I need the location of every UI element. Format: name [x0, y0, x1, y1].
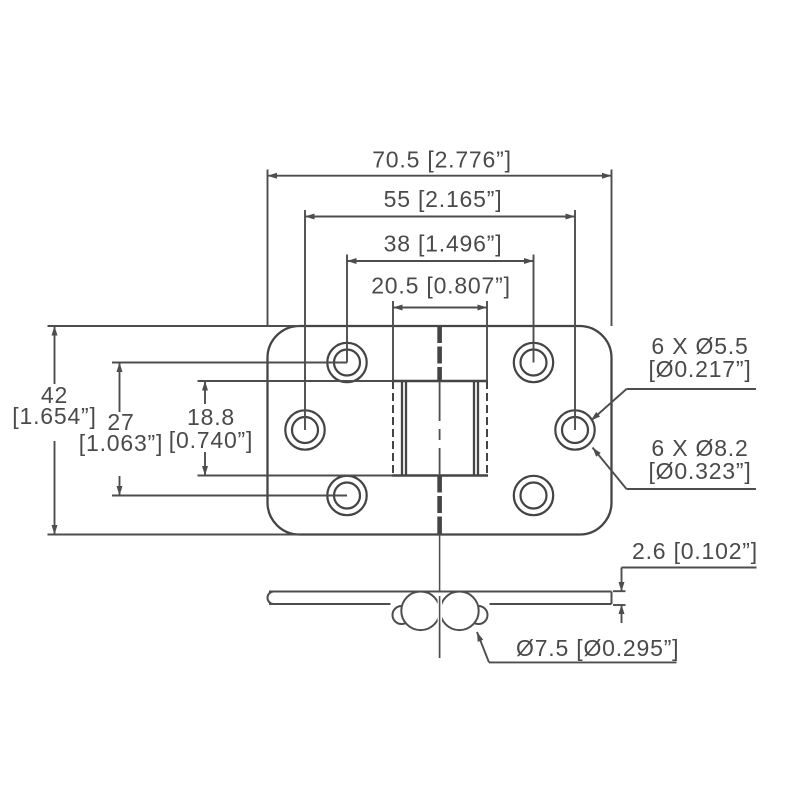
- center line of hinge upper heavy dashed segment: [437, 326, 442, 381]
- hole bottom-left inner: [334, 483, 360, 509]
- extension line 38 right: [533, 255, 535, 363]
- label D7.5 leader arrow: [477, 632, 489, 662]
- hole mid-right outer: [555, 410, 594, 449]
- svg-text:[1.063”]: [1.063”]: [79, 430, 163, 456]
- hole bottom-right inner: [521, 483, 547, 509]
- side view plate bottom line left: [269, 603, 391, 605]
- hole top-right outer: [514, 343, 553, 382]
- side view plate right cap: [611, 592, 613, 605]
- extension line left edge (70.5): [267, 170, 269, 327]
- hole top-left outer: [327, 343, 366, 382]
- center line of hinge lower heavy dashed segment: [437, 476, 442, 535]
- leader to outer hole: [593, 448, 627, 490]
- hole top-left inner: [334, 350, 360, 376]
- hole mid-left outer: [285, 410, 324, 449]
- dimension line 27 lower segment: [119, 476, 121, 496]
- svg-text:[0.740”]: [0.740”]: [169, 427, 253, 453]
- side view plate left cap: [267, 592, 273, 605]
- dimension line 55: [305, 216, 575, 218]
- dimension 2.6 arrow down to plate top: [621, 568, 623, 592]
- side view right ear curl: [470, 606, 488, 624]
- svg-text:70.5 [2.776”]: 70.5 [2.776”]: [372, 147, 512, 173]
- dimension line 27 upper segment: [119, 363, 121, 413]
- extension line 20.5 left: [392, 301, 394, 381]
- center line thin inside knuckle: [439, 381, 441, 476]
- hole bottom-right outer: [514, 476, 553, 515]
- side view plate fill: [268, 592, 612, 605]
- side view left ear curl: [393, 606, 411, 624]
- knuckle hidden edge left (dashed): [392, 381, 394, 476]
- extension line 55 left: [304, 210, 306, 430]
- side view center line: [439, 533, 441, 658]
- knuckle pin visible line right pair: [473, 381, 475, 476]
- knuckle pin visible line left pair: [401, 381, 403, 476]
- extension line 20.5 right: [486, 301, 488, 381]
- hole mid-left inner: [292, 417, 318, 443]
- label 6xD5.5 underline: [627, 388, 757, 390]
- svg-text:2.6 [0.102”]: 2.6 [0.102”]: [632, 538, 758, 564]
- hole mid-right inner: [562, 417, 588, 443]
- dimension line 18.8 lower segment: [204, 452, 206, 476]
- extension line 27 top: [112, 362, 347, 364]
- hole top-right inner: [521, 350, 547, 376]
- svg-text:[Ø0.217”]: [Ø0.217”]: [648, 356, 751, 382]
- svg-text:Ø7.5 [Ø0.295”]: Ø7.5 [Ø0.295”]: [516, 635, 679, 661]
- knuckle hidden edge right (dashed): [486, 381, 488, 476]
- dimension 2.6 leader horizontal: [622, 567, 757, 569]
- leader to inner hole: [591, 389, 627, 421]
- side view left barrel: [401, 592, 440, 631]
- svg-text:38 [1.496”]: 38 [1.496”]: [384, 231, 503, 257]
- extension line 18.8 top: [198, 380, 394, 382]
- side view center sliver: [438, 598, 442, 623]
- svg-text:[1.654”]: [1.654”]: [12, 403, 96, 429]
- extension line 42 bottom: [48, 534, 301, 536]
- dimension line 20.5: [393, 307, 487, 309]
- extension line 27 bottom: [112, 495, 347, 497]
- hinge body (top view): [268, 326, 612, 535]
- dimension 2.6 extension tick top: [613, 590, 626, 592]
- svg-text:55 [2.165”]: 55 [2.165”]: [384, 186, 503, 212]
- extension line 38 left: [346, 255, 348, 363]
- svg-text:20.5 [0.807”]: 20.5 [0.807”]: [371, 273, 511, 299]
- hole bottom-left outer: [327, 476, 366, 515]
- side view center line lower redraw: [439, 596, 441, 658]
- extension line 42 top: [48, 325, 301, 327]
- extension line 55 right: [574, 210, 576, 430]
- extension line 18.8 bottom: [198, 475, 394, 477]
- dimension 2.6 arrow up to plate bottom: [621, 605, 623, 624]
- side view right barrel: [440, 592, 479, 631]
- dimension line 18.8 upper segment: [204, 381, 206, 404]
- extension line right edge (70.5): [611, 170, 613, 327]
- dimension line 42 upper segment: [54, 326, 56, 384]
- dimension 2.6 extension tick bottom: [613, 604, 626, 606]
- dimension line 42 lower segment: [54, 441, 56, 535]
- label D7.5 underline: [489, 661, 677, 663]
- dimension line 38: [347, 260, 534, 262]
- label 6xD8.2 underline: [627, 488, 757, 490]
- side view plate bottom line right: [490, 603, 612, 605]
- dimension line 70.5: [268, 175, 612, 177]
- side view plate top line: [269, 591, 612, 593]
- knuckle top edge: [392, 380, 488, 383]
- knuckle bottom edge: [392, 474, 488, 477]
- svg-text:[Ø0.323”]: [Ø0.323”]: [648, 458, 751, 484]
